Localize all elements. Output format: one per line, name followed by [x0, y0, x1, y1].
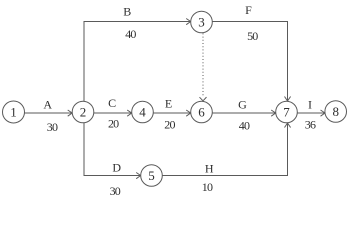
svg-text:50: 50	[247, 29, 258, 43]
svg-text:8: 8	[332, 104, 339, 119]
svg-text:G: G	[238, 98, 247, 112]
svg-text:5: 5	[148, 168, 155, 183]
svg-text:20: 20	[108, 117, 119, 131]
svg-text:2: 2	[80, 105, 87, 120]
svg-text:7: 7	[283, 105, 290, 120]
svg-text:30: 30	[110, 184, 121, 198]
svg-text:10: 10	[202, 180, 213, 194]
svg-text:C: C	[108, 96, 116, 110]
svg-text:F: F	[245, 3, 252, 17]
svg-text:40: 40	[125, 27, 136, 41]
svg-text:36: 36	[305, 118, 316, 132]
svg-text:E: E	[165, 97, 172, 111]
svg-text:4: 4	[139, 105, 146, 120]
svg-text:40: 40	[239, 118, 250, 132]
svg-text:1: 1	[10, 105, 17, 120]
svg-text:3: 3	[198, 15, 205, 30]
svg-text:6: 6	[198, 105, 205, 120]
svg-text:B: B	[123, 5, 131, 19]
svg-text:30: 30	[47, 120, 58, 134]
svg-text:D: D	[112, 161, 121, 175]
svg-text:H: H	[205, 161, 214, 175]
svg-text:A: A	[43, 98, 52, 112]
svg-text:20: 20	[164, 118, 175, 132]
svg-text:I: I	[308, 98, 312, 112]
